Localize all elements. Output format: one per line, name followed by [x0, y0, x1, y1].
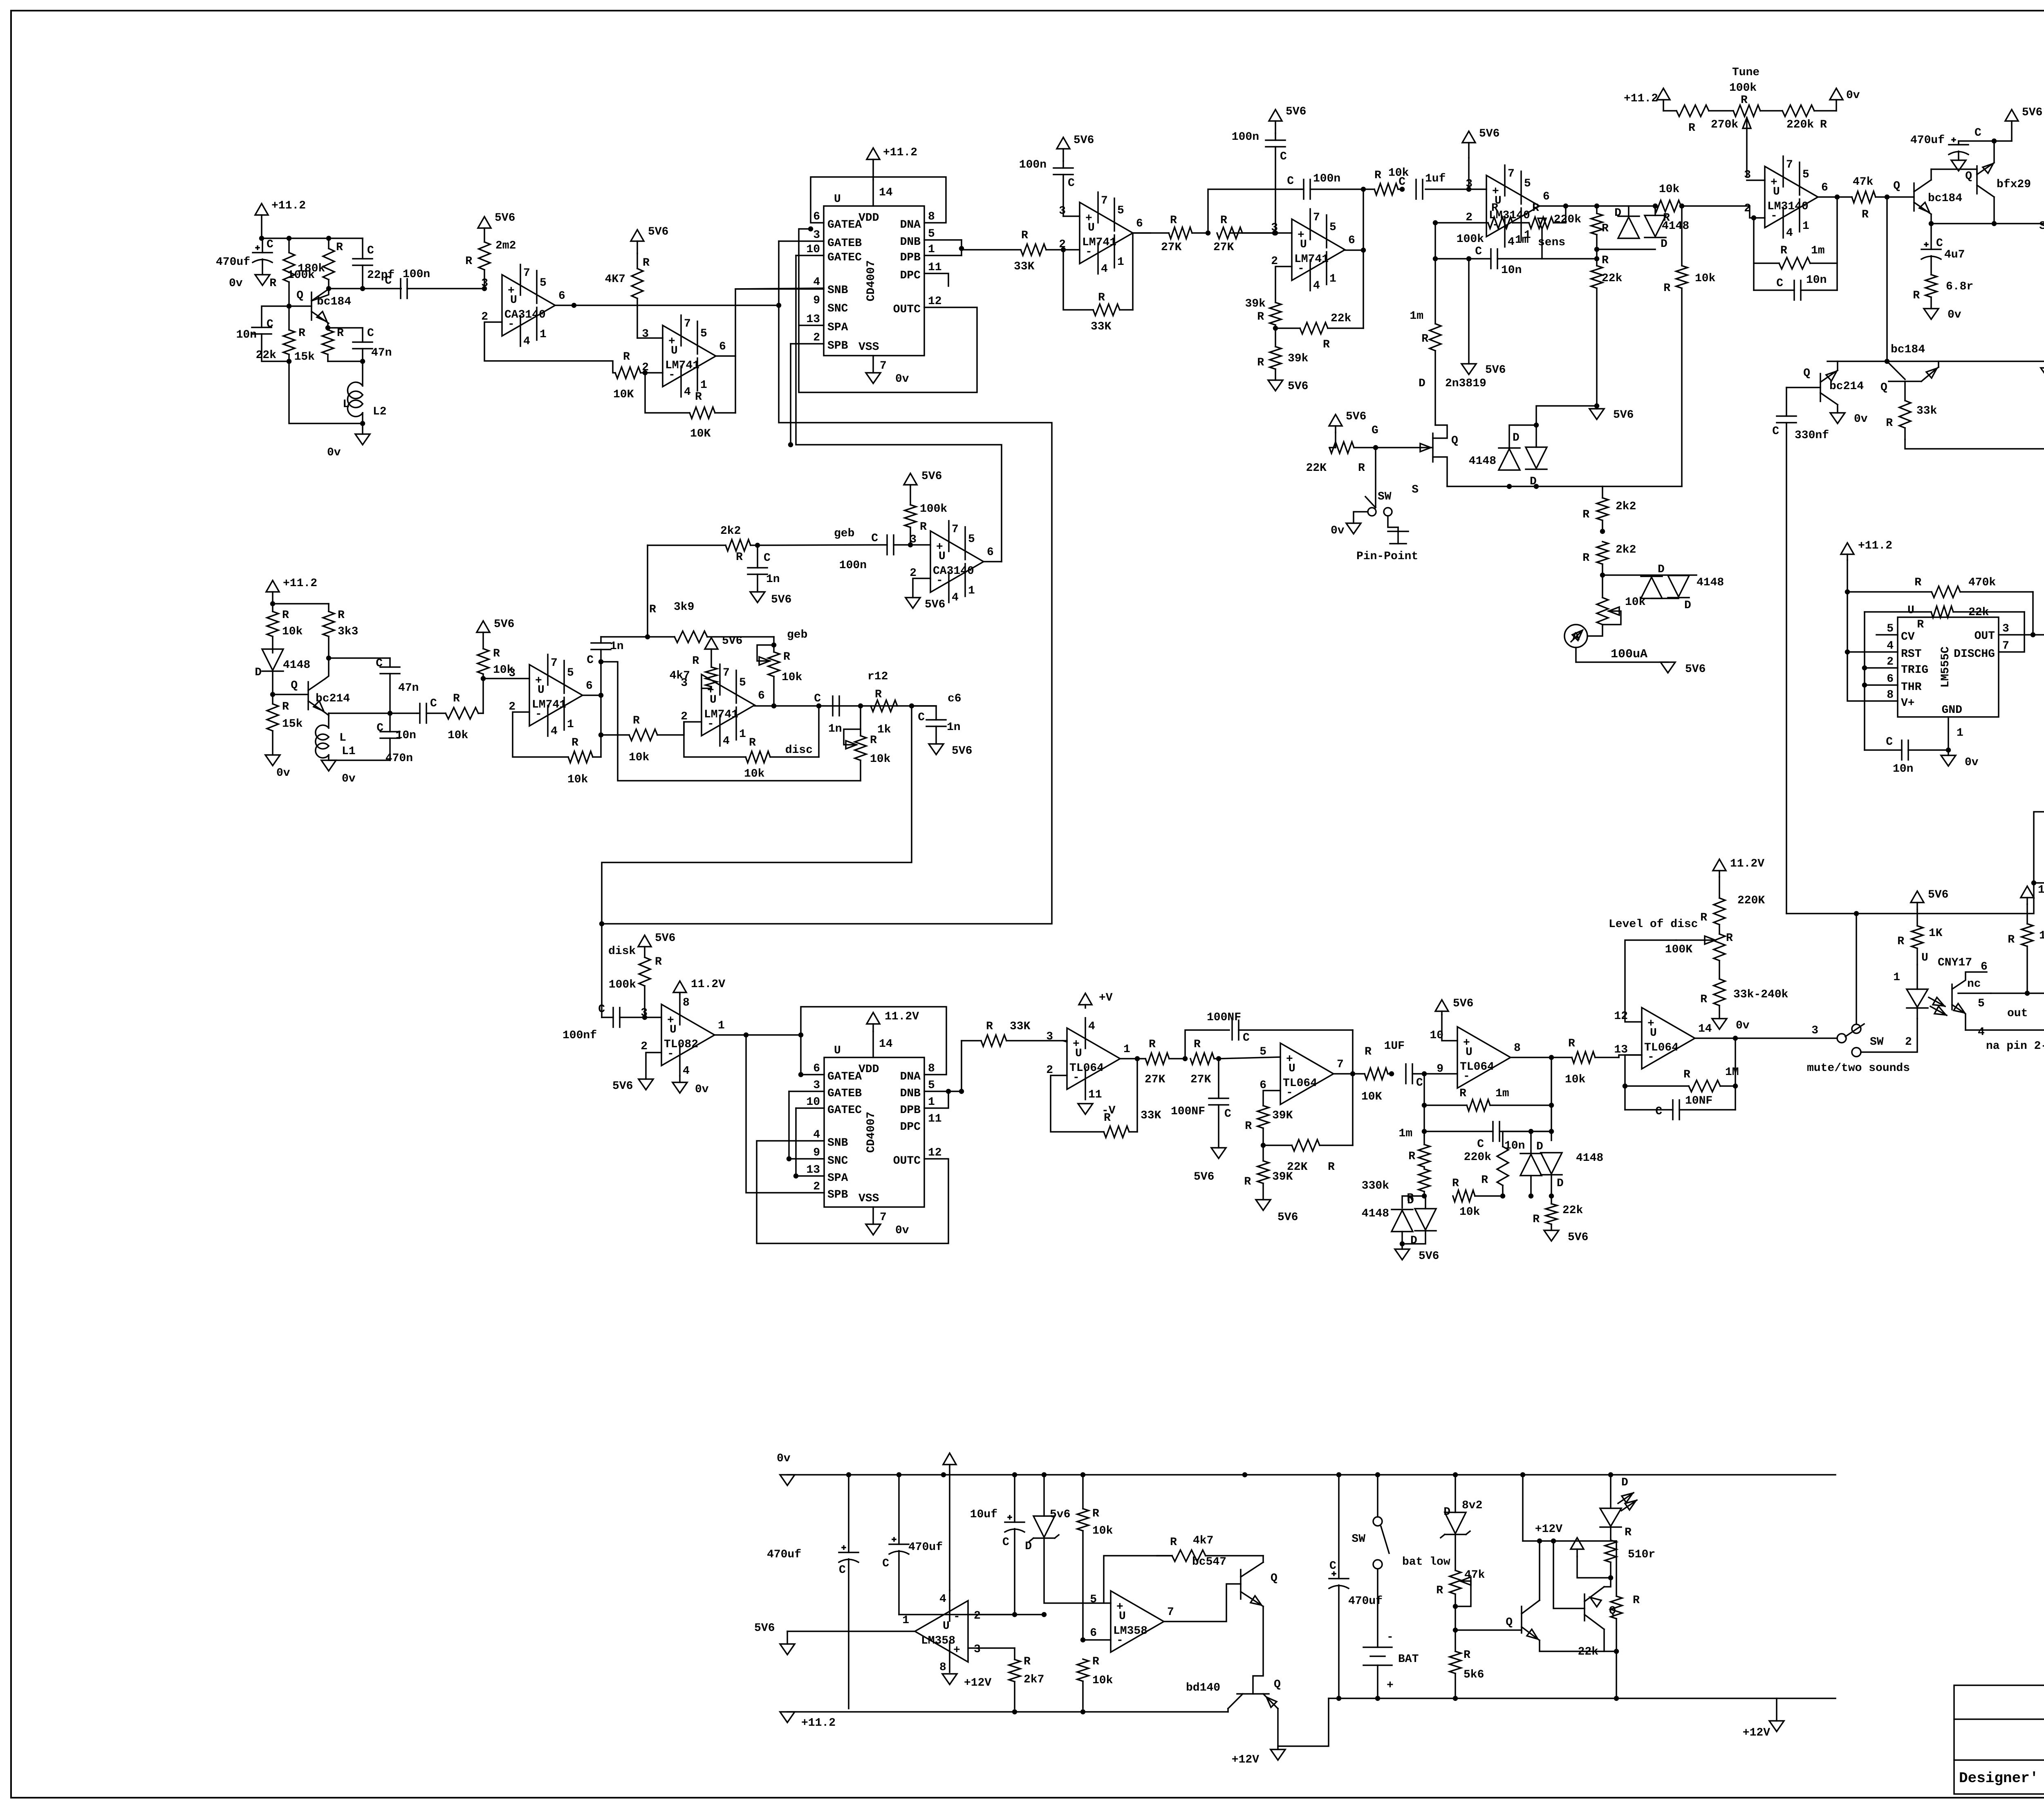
svg-text:DNB: DNB: [900, 1087, 921, 1100]
resistor R20 22K gate: [1306, 442, 1376, 475]
wire net-gateb down: [602, 241, 1052, 924]
wire 5v6-rail: [1959, 140, 2012, 142]
svg-text:C: C: [1475, 245, 1482, 258]
svg-text:7: 7: [523, 267, 530, 280]
node clamp-top: [1535, 423, 1538, 427]
wire U2-pin3: [637, 337, 663, 339]
svg-text:100uA: 100uA: [1611, 647, 1647, 661]
label U3 DPC: [900, 269, 921, 282]
node rail0v-g: [1243, 1473, 1247, 1477]
label U3 VDD: [858, 212, 879, 224]
svg-text:U: U: [939, 550, 946, 563]
label U10 pin10: [806, 1096, 820, 1109]
wire C5-row: [328, 361, 363, 362]
svg-text:GATEB: GATEB: [827, 1087, 862, 1100]
node rail11-a: [1013, 1710, 1017, 1714]
svg-text:12: 12: [928, 1147, 942, 1159]
label bc184-b: [0, 0, 1, 1]
potentiometer R23 10k meter: [1597, 575, 1646, 625]
svg-text:D: D: [1658, 563, 1665, 576]
svg-text:R: R: [1602, 254, 1609, 267]
wire U9-out: [715, 1034, 801, 1036]
svg-text:10k: 10k: [870, 753, 891, 766]
wire net-dpb2: [961, 249, 962, 255]
wire U14-out: [1695, 1037, 1837, 1039]
node 2k2-mid: [1601, 530, 1605, 533]
label U10 pin5: [928, 1079, 935, 1092]
wire U8 TRIG stub: [1865, 667, 1898, 669]
svg-text:C: C: [1776, 277, 1783, 290]
op-amp U5 LM741: [1271, 209, 1355, 292]
diode D7 4148 f: [1362, 1194, 1414, 1232]
svg-text:470uf: 470uf: [216, 256, 250, 269]
capacitor C28 1n c: [814, 692, 842, 735]
svg-text:10K: 10K: [1361, 1091, 1382, 1103]
label 4148 pair4: [1576, 1152, 1603, 1165]
svg-text:1n: 1n: [766, 573, 780, 586]
svg-text:0v: 0v: [777, 1452, 791, 1465]
svg-text:R: R: [298, 327, 305, 340]
wire source-row: [1447, 486, 1602, 487]
svg-text:U: U: [1088, 222, 1095, 234]
resistor R48 330k: [1362, 1169, 1430, 1205]
wire u16-out-col: [600, 662, 602, 757]
svg-text:RST: RST: [1901, 648, 1921, 661]
ground 5V6 meter: [1661, 662, 1675, 673]
power 5V6 opto: [1911, 889, 1948, 909]
node mid-b: [1401, 188, 1404, 191]
node 2k2-right: [756, 544, 760, 547]
svg-text:7: 7: [723, 667, 730, 679]
svg-text:R: R: [695, 391, 702, 403]
svg-text:D: D: [1621, 1476, 1628, 1489]
wire q10-base: [1455, 1629, 1522, 1631]
inductor L1: [316, 713, 356, 760]
node lvl-a: [1501, 1194, 1505, 1198]
svg-text:R: R: [1582, 552, 1589, 564]
svg-text:R: R: [1021, 229, 1028, 242]
svg-text:5V6: 5V6: [2022, 106, 2042, 119]
label U3 pin6: [813, 211, 820, 223]
svg-text:14: 14: [879, 1038, 893, 1050]
wire U10 GATEC stub: [796, 1107, 824, 1109]
wire 470k-out: [2032, 592, 2034, 635]
resistor R56 1M: [1625, 1066, 1739, 1092]
svg-text:8: 8: [1887, 689, 1894, 701]
svg-text:R: R: [453, 692, 460, 705]
svg-text:5: 5: [1117, 204, 1124, 217]
wire r12-down: [602, 706, 912, 1017]
resistor R66 2k2 geb: [648, 525, 758, 564]
resistor R64 10k fb: [567, 737, 601, 786]
wire U2-out: [716, 356, 735, 413]
capacitor C29 1n c6: [918, 692, 961, 744]
svg-text:U: U: [510, 294, 517, 307]
node out-470k: [2031, 633, 2035, 637]
resistor R7 4K7: [605, 253, 650, 338]
svg-text:Q: Q: [296, 289, 303, 302]
svg-text:6: 6: [813, 211, 820, 223]
wire q11-emit: [1604, 1578, 1611, 1587]
capacitor C5 47n: [353, 327, 392, 361]
svg-text:R: R: [1602, 222, 1609, 235]
node 5v6-u6: [1467, 188, 1471, 191]
node u19-pin2: [1013, 1613, 1017, 1617]
svg-text:Q: Q: [291, 679, 298, 692]
wire clamp-up: [1536, 406, 1597, 425]
svg-text:c6: c6: [948, 692, 961, 705]
wire q7-base-w: [273, 694, 308, 695]
node U11-out: [1136, 1057, 1139, 1061]
wire sens-right: [1565, 206, 1567, 223]
svg-text:47k: 47k: [1853, 176, 1874, 188]
wire q7-coll-w: [325, 658, 329, 679]
svg-text:R: R: [692, 655, 699, 667]
label 4148 pair2: [1697, 576, 1724, 589]
node U4-pin2: [1062, 248, 1065, 252]
svg-text:3: 3: [1744, 169, 1751, 181]
node clamp2-gnd: [1401, 1242, 1404, 1246]
svg-text:CA3140: CA3140: [933, 565, 974, 578]
svg-text:5V6: 5V6: [754, 1622, 775, 1635]
svg-text:3: 3: [1811, 1024, 1818, 1037]
ground +11.2 psu: [780, 1712, 795, 1722]
svg-text:0v: 0v: [327, 446, 341, 459]
node q11-base: [1552, 1539, 1555, 1543]
op-amp U2 LM741: [642, 315, 726, 399]
wire Q1-collector: [312, 289, 329, 301]
node sens-fb: [1564, 204, 1568, 208]
svg-text:C: C: [587, 654, 594, 667]
svg-text:R: R: [1700, 993, 1707, 1006]
resistor R21 2k2 a: [1582, 486, 1636, 531]
svg-text:D: D: [1684, 599, 1691, 612]
wire mfb-in5: [1219, 1057, 1280, 1059]
svg-text:4: 4: [723, 735, 730, 748]
diode D13 zener 8v2: [1441, 1499, 1482, 1538]
node U5-pin3b: [1273, 231, 1277, 235]
resistor R67b 4k7 u18: [670, 649, 717, 688]
svg-text:V+: V+: [1901, 697, 1915, 710]
svg-text:3: 3: [509, 667, 515, 680]
resistor R73 2k7: [1009, 1648, 1044, 1709]
svg-text:R: R: [1244, 1176, 1251, 1188]
resistor R6 10K fb1: [613, 351, 663, 401]
wire 8v2-bot: [1455, 1535, 1456, 1570]
resistor R44 39K d: [1244, 1145, 1293, 1200]
wire q9-coll: [1227, 1709, 1229, 1712]
node d9-top: [1529, 1130, 1533, 1133]
svg-text:100NF: 100NF: [1171, 1105, 1205, 1118]
svg-text:15k: 15k: [282, 718, 303, 730]
wire u20-pin6: [1083, 1639, 1111, 1641]
svg-text:SPB: SPB: [827, 340, 848, 352]
svg-text:3: 3: [2002, 623, 2009, 635]
svg-text:CNY17: CNY17: [1938, 956, 1972, 969]
svg-text:1M: 1M: [1725, 1066, 1739, 1079]
resistor R58 160K: [2008, 904, 2044, 993]
wire U11-out: [1120, 1058, 1145, 1059]
node rail11-b: [1081, 1710, 1085, 1714]
transistor Q5 bc214: [1803, 367, 1864, 405]
svg-text:3: 3: [813, 229, 820, 242]
svg-text:TL064: TL064: [1069, 1062, 1104, 1075]
svg-text:2: 2: [813, 331, 820, 344]
wire emit-row: [329, 712, 417, 714]
label geb: [834, 527, 854, 540]
svg-text:1: 1: [1802, 220, 1809, 233]
wire U4-out-27k: [1133, 232, 1150, 234]
resistor R28 270k: [1676, 105, 1738, 134]
node rail1-b: [287, 237, 291, 240]
svg-text:OUTC: OUTC: [893, 303, 921, 316]
wire 5v6-rail: [787, 1631, 915, 1632]
diode D10 4148 i: [1541, 1153, 1564, 1190]
svg-text:GATEA: GATEA: [827, 1071, 862, 1083]
node fb3-a: [1550, 1104, 1553, 1107]
svg-text:U: U: [1466, 1046, 1472, 1059]
svg-text:47k: 47k: [1464, 1569, 1485, 1581]
ground 0v 6.8r: [1924, 309, 1961, 321]
svg-text:22k: 22k: [1968, 606, 1989, 619]
resistor R15 39k b: [1257, 328, 1308, 380]
wire U8 THR stub: [1865, 684, 1898, 686]
ground C12: [1951, 160, 1966, 171]
label U10 pin2: [813, 1180, 820, 1193]
svg-text:9: 9: [813, 1147, 820, 1159]
svg-text:0v: 0v: [1846, 89, 1860, 102]
svg-text:R: R: [493, 647, 500, 660]
wire U7-fb-col: [1836, 197, 1838, 290]
svg-text:10k: 10k: [629, 751, 650, 764]
svg-text:33k: 33k: [1916, 405, 1937, 417]
svg-text:Level of disc: Level of disc: [1609, 918, 1698, 931]
svg-text:33K: 33K: [1014, 260, 1035, 273]
wire U10 SPA link: [796, 1108, 824, 1176]
svg-text:R: R: [1170, 214, 1177, 227]
wire q3-emit-down: [1930, 214, 1932, 224]
capacitor C3 100n: [385, 268, 484, 298]
wire U12-pin6-loop: [1263, 1091, 1280, 1106]
power +11.2 tune: [1657, 88, 1670, 111]
label U3 pin1: [928, 243, 935, 256]
wire U10 GATEB stub: [789, 1091, 824, 1092]
node rail1-a: [260, 237, 264, 240]
label U10 pin13: [806, 1164, 820, 1176]
ground 5V6 39Kd: [1256, 1200, 1298, 1224]
svg-text:CD4007: CD4007: [865, 1112, 878, 1153]
resistor R46 1m fb3: [1424, 1087, 1551, 1111]
resistor R26 10k u6u7: [1654, 183, 1750, 224]
svg-text:2: 2: [813, 1180, 820, 1193]
wire u16-out: [583, 694, 601, 696]
svg-text:330nf: 330nf: [1795, 429, 1829, 442]
svg-text:geb: geb: [834, 527, 854, 540]
wire U13-out: [1511, 1057, 1572, 1058]
svg-text:5: 5: [968, 533, 975, 546]
svg-text:D: D: [1614, 207, 1621, 219]
svg-text:100NF: 100NF: [1207, 1011, 1241, 1024]
wire U10 VSS stub: [872, 1207, 874, 1224]
svg-text:R: R: [1683, 1068, 1690, 1081]
svg-text:4: 4: [1313, 280, 1320, 292]
svg-text:10n: 10n: [1806, 274, 1827, 287]
svg-text:9: 9: [1437, 1063, 1443, 1075]
capacitor C15 10n 555: [1865, 736, 1948, 775]
svg-text:U: U: [1075, 1047, 1082, 1060]
wire 22k-stem: [1335, 432, 1336, 448]
node disk: [643, 1016, 647, 1019]
svg-text:100k: 100k: [1457, 233, 1484, 246]
power 11.2V 160K: [2021, 884, 2044, 904]
svg-text:LM741: LM741: [1082, 236, 1116, 249]
svg-text:R: R: [1170, 1536, 1177, 1549]
svg-text:4: 4: [684, 386, 691, 399]
node 27k-mid: [1206, 231, 1210, 235]
capacitor C2 22pf: [353, 238, 394, 289]
svg-text:R: R: [1194, 1038, 1201, 1051]
svg-text:D: D: [1443, 1506, 1450, 1519]
svg-text:1m: 1m: [1811, 244, 1825, 257]
wire q7-emit-w: [325, 713, 329, 715]
node rail0v-e: [1042, 1473, 1046, 1477]
svg-text:R: R: [1092, 1507, 1099, 1520]
svg-text:SNC: SNC: [827, 1155, 848, 1167]
node zener-bot: [1042, 1613, 1046, 1617]
svg-text:100k: 100k: [1729, 82, 1757, 94]
svg-text:1: 1: [1117, 256, 1124, 269]
svg-text:bc214: bc214: [1829, 380, 1864, 393]
resistor R60 15k b: [267, 694, 303, 755]
resistor R17 100k sens: [1457, 202, 1513, 246]
node rail0v-l: [1609, 1473, 1613, 1477]
wire U1-feedback: [484, 322, 615, 373]
label U10 DPB: [900, 1104, 921, 1117]
svg-text:bc184: bc184: [1891, 343, 1925, 356]
node geb-pot-top: [772, 643, 776, 647]
wire d11-b: [272, 671, 273, 694]
label U10 pin8: [928, 1062, 935, 1075]
node U13-out: [1550, 1056, 1553, 1059]
svg-text:R: R: [338, 609, 345, 622]
label U10 pin14: [879, 1038, 893, 1050]
wire out-to-opto: [2034, 883, 2044, 1030]
wire rail1: [262, 237, 363, 239]
wire d10-col: [1551, 1176, 1552, 1196]
wire pin9-col: [1423, 1074, 1425, 1136]
resistor R47 1m drop: [1399, 1127, 1430, 1169]
resistor R5 2m2: [465, 240, 516, 289]
wire emitter-row: [328, 327, 363, 329]
label U3 pin13: [806, 313, 820, 326]
svg-text:LM358: LM358: [1113, 1625, 1148, 1637]
svg-text:7: 7: [880, 360, 887, 372]
wire C4-bottom: [262, 334, 289, 361]
wire rail-12v: [1329, 1698, 1836, 1699]
svg-text:5: 5: [567, 667, 574, 679]
svg-text:4: 4: [1978, 1026, 1985, 1039]
wire U11-pin3: [1063, 1041, 1067, 1042]
svg-text:G: G: [1372, 424, 1378, 437]
resistor R67 100k geb: [905, 485, 947, 545]
wire jog-u7: [1750, 206, 1765, 218]
svg-text:100nf: 100nf: [563, 1029, 597, 1042]
svg-text:TL064: TL064: [1283, 1077, 1317, 1090]
node sig-a: [1390, 1072, 1394, 1076]
svg-text:6: 6: [1090, 1627, 1097, 1639]
meter M1 100uA: [1564, 625, 1668, 662]
wire coll-row: [329, 657, 390, 659]
svg-text:5V6: 5V6: [495, 212, 515, 224]
wire zener-bot: [1044, 1539, 1111, 1603]
ground 0v C1: [229, 275, 270, 290]
svg-text:270k: 270k: [1711, 119, 1738, 131]
op-amp U14 TL064-D: [1614, 1008, 1712, 1069]
svg-text:Q: Q: [1803, 367, 1810, 380]
resistor R4 15k: [294, 327, 344, 363]
op-amp U12 TL064-B: [1260, 1043, 1344, 1104]
wire opto-e-out: [1966, 1029, 2044, 1031]
ground 0v U10: [866, 1224, 909, 1237]
node gatec2: [794, 1174, 798, 1178]
svg-text:R: R: [1481, 1174, 1488, 1187]
node row1798: [599, 733, 603, 737]
op-amp U20 LM358-B: [1090, 1591, 1174, 1652]
resistor R22 2k2 b: [1582, 542, 1636, 575]
resistor R53 220K lvl: [1700, 877, 1765, 934]
wire q11-base: [1553, 1541, 1585, 1608]
node sw-col: [1855, 912, 1858, 916]
svg-text:R: R: [1092, 1655, 1099, 1668]
svg-text:1: 1: [1957, 727, 1963, 739]
node u16-pin3-n: [482, 677, 485, 681]
svg-text:5: 5: [1260, 1046, 1266, 1058]
diode D6 4148 e: [1614, 207, 1667, 251]
capacitor C21 10NF: [1625, 1095, 1735, 1120]
svg-text:R: R: [1625, 1526, 1632, 1539]
svg-text:5V6: 5V6: [1928, 889, 1948, 901]
svg-text:470uf: 470uf: [1910, 134, 1945, 147]
node rail1-c: [327, 237, 331, 240]
label U3 GATEC: [827, 251, 862, 264]
svg-text:1: 1: [567, 718, 574, 731]
title designer: [1959, 1770, 2044, 1787]
svg-text:10k: 10k: [782, 671, 802, 684]
svg-text:10n: 10n: [1501, 264, 1522, 277]
svg-text:C: C: [1002, 1536, 1009, 1549]
resistor R43 22K fb2: [1263, 1140, 1353, 1174]
node gateb2: [787, 1157, 791, 1161]
svg-text:8v2: 8v2: [1462, 1499, 1482, 1512]
resistor R50 220k lvl: [1464, 1131, 1508, 1196]
svg-text:LM741: LM741: [532, 699, 566, 711]
svg-text:VSS: VSS: [858, 341, 879, 354]
svg-text:220k: 220k: [1786, 119, 1814, 131]
resistor R65 3k9: [601, 601, 774, 643]
node lvl-c: [1550, 1194, 1553, 1198]
resistor R30 220k tune: [1782, 105, 1836, 131]
label U8 GND: [1942, 704, 1962, 717]
potentiometer R29 100k tune: [1729, 66, 1782, 176]
svg-text:OUTC: OUTC: [893, 1155, 921, 1167]
power 5V6 22K: [1329, 410, 1366, 432]
op-amp U17 CA3140: [910, 521, 994, 604]
wire U9-DNA-loop: [801, 1007, 946, 1075]
svg-text:14: 14: [1698, 1023, 1712, 1035]
svg-text:U: U: [834, 193, 841, 206]
capacitor C6 100n U4: [1019, 159, 1075, 216]
svg-text:-: -: [953, 1610, 960, 1623]
